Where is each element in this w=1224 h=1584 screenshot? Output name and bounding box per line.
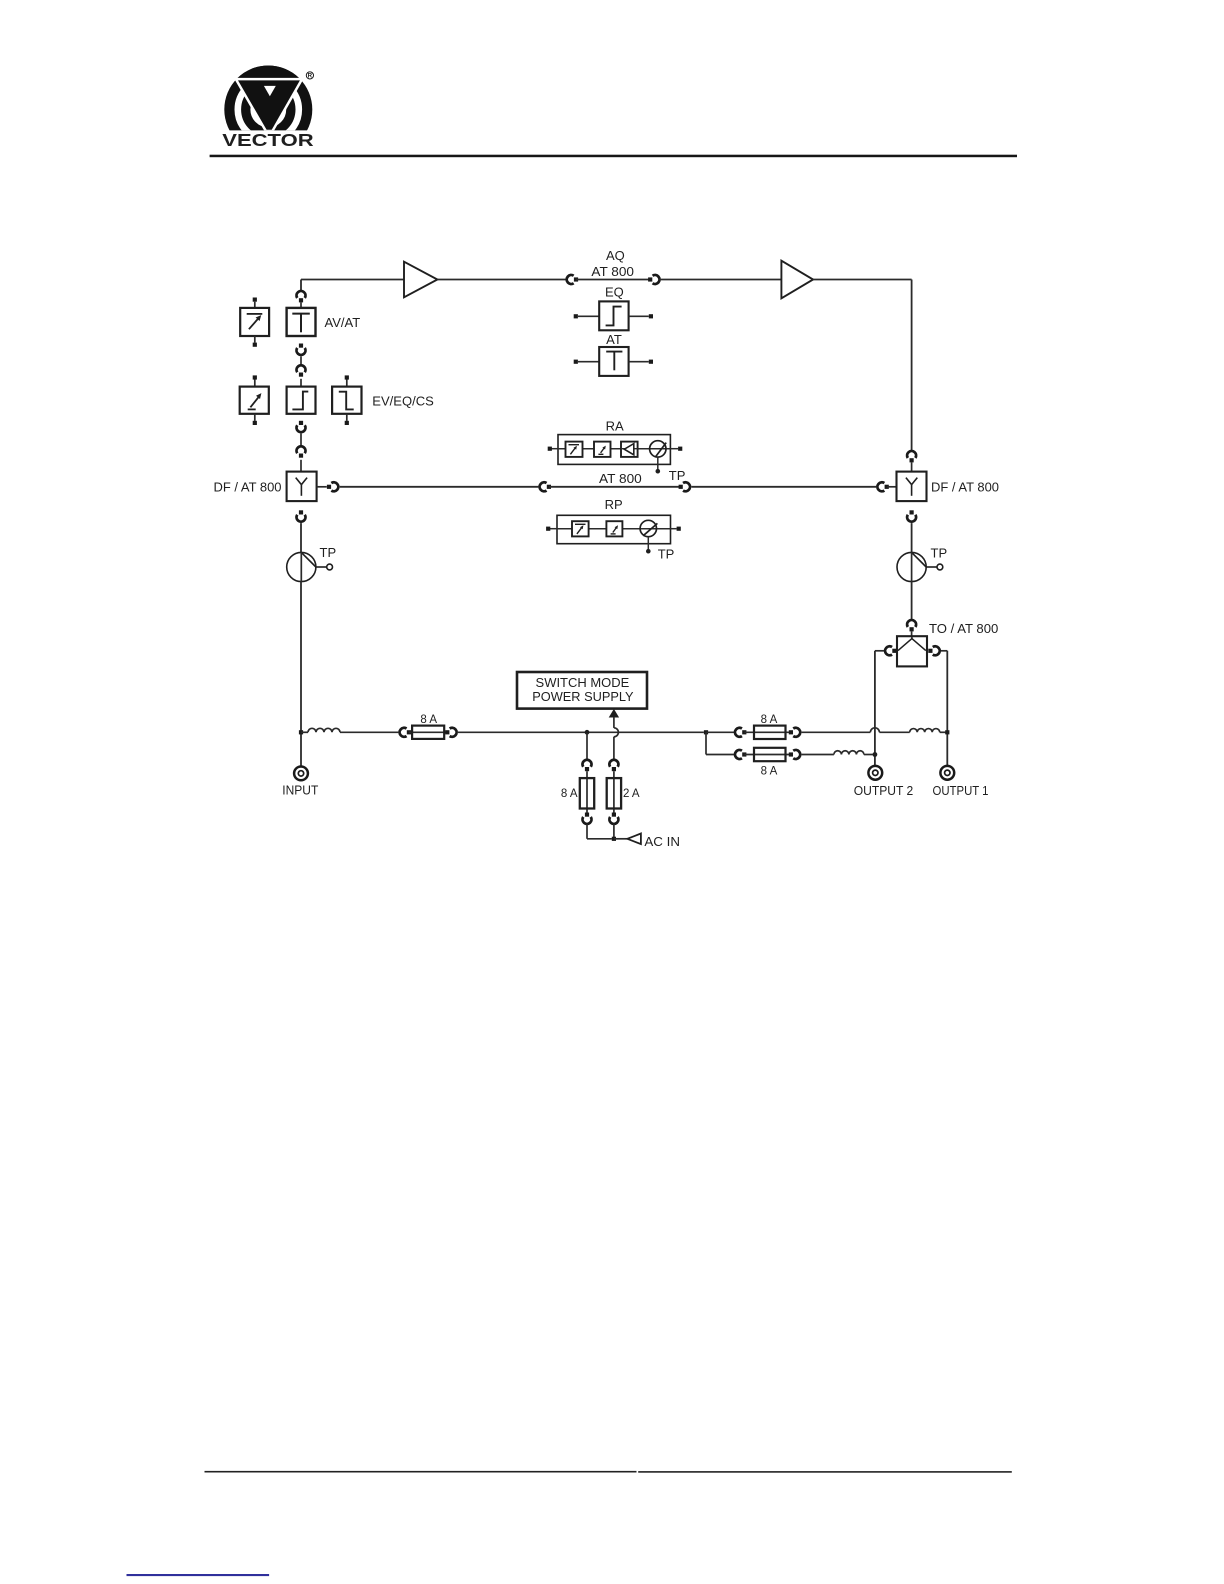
- wire J6 to J7: [300, 434, 302, 447]
- connector J8 plug: [327, 485, 331, 489]
- connector J15 plug: [910, 627, 914, 631]
- wire RP TP stub: [647, 537, 649, 549]
- wire through fuse F2: [744, 731, 791, 733]
- svg-text:DF / AT 800: DF / AT 800: [214, 479, 282, 494]
- svg-text:TP: TP: [931, 546, 948, 561]
- fuse F4 8A vertical: [580, 778, 594, 808]
- connector J4 plug: [299, 344, 303, 348]
- connector J3 socket: [297, 291, 306, 298]
- wire F3 to inductor L3: [802, 754, 834, 756]
- wire J13 to DF right: [911, 462, 913, 471]
- connector J3 plug: [299, 298, 303, 302]
- svg-text:DF / AT 800: DF / AT 800: [931, 480, 999, 495]
- connector J17 socket: [933, 646, 940, 655]
- junction input power tap: [299, 730, 303, 734]
- wire spare AV top stub: [254, 302, 256, 308]
- wire J11 to DF right: [887, 486, 897, 488]
- connector J25 socket: [793, 728, 800, 737]
- registered trademark symbol: [306, 72, 313, 80]
- wire to fuse F4: [586, 733, 588, 760]
- connector J12 socket: [297, 515, 306, 522]
- junction OUTPUT 1 feed: [945, 730, 949, 734]
- connector J6 plug: [299, 421, 303, 425]
- wire J14 to test point TP2: [911, 523, 913, 552]
- connector J15 socket: [907, 620, 916, 627]
- wire J2 to amplifier A2: [659, 279, 781, 281]
- wire AT left stub: [578, 361, 599, 363]
- AT module right plug: [649, 360, 653, 364]
- module EQ equalizer slot: [287, 387, 316, 414]
- connector J7 socket: [297, 446, 306, 453]
- connector J11 plug: [885, 485, 889, 489]
- connector J11 socket: [877, 482, 884, 491]
- connector J20 socket: [583, 760, 592, 767]
- wire power from input column: [301, 731, 308, 733]
- RA amp internal wire: [621, 448, 638, 450]
- svg-text:POWER SUPPLY: POWER SUPPLY: [532, 689, 634, 704]
- wire F2 to hop: [802, 731, 871, 733]
- svg-text:TP: TP: [669, 468, 686, 483]
- return amplifier module RA: [558, 435, 670, 465]
- VECTOR logo emblem: [222, 66, 315, 154]
- svg-text:AT 800: AT 800: [591, 264, 634, 279]
- wire EQ left stub: [578, 315, 599, 317]
- connector J6 socket: [297, 425, 306, 432]
- wire J15 to TO module: [911, 631, 913, 636]
- connector J18 plug: [407, 730, 411, 734]
- module AV/AT: [287, 308, 316, 336]
- wire spare CS bottom stub: [346, 414, 348, 421]
- wire J10 to J11: [691, 486, 876, 488]
- DF right Y symbol: [906, 478, 917, 496]
- wire F4 down: [586, 824, 588, 839]
- svg-text:AT: AT: [606, 332, 622, 347]
- AT attenuator symbol: [606, 352, 622, 371]
- RP left plug: [546, 527, 550, 531]
- svg-text:OUTPUT 1: OUTPUT 1: [933, 783, 989, 798]
- svg-text:8 A: 8 A: [561, 788, 578, 800]
- wire through fuse F5: [613, 771, 615, 813]
- module AT attenuator: [599, 347, 628, 376]
- connector J26 plug: [742, 752, 746, 756]
- wire AQ module section: [576, 279, 650, 281]
- svg-text:VECTOR: VECTOR: [222, 130, 314, 150]
- wire J3 to AV/AT: [300, 303, 302, 308]
- module CS cable simulator spare: [332, 387, 361, 414]
- test point TP1 coupler: [287, 552, 333, 581]
- AV/AT T symbol: [292, 314, 310, 333]
- RP attenuator arrow: [575, 524, 586, 534]
- RA TP terminal dot: [656, 469, 661, 474]
- test point TP2 coupler: [897, 552, 943, 581]
- module EQ equalizer: [599, 301, 628, 330]
- inductor L2 RF choke: [910, 729, 940, 733]
- svg-text:AT 800: AT 800: [599, 471, 642, 486]
- wire TP2 to connector J15: [911, 582, 913, 621]
- wire through fuse F4: [586, 771, 588, 813]
- wire input to amplifier A1: [301, 279, 404, 281]
- wire SMPS feed upper: [613, 717, 615, 728]
- svg-text:OUTPUT 2: OUTPUT 2: [854, 783, 914, 798]
- EQ response symbol: [606, 307, 622, 326]
- wire RA left stub: [550, 448, 558, 450]
- wire L3 to OUTPUT 2 line: [864, 754, 873, 756]
- switch mode power supply: [517, 672, 647, 709]
- INPUT jack: [294, 767, 308, 781]
- connector J1 socket: [567, 275, 574, 284]
- junction dot OUTPUT 2 feed: [873, 752, 878, 757]
- connector J1 plug: [574, 277, 578, 281]
- wire F1 to junction: [458, 731, 704, 733]
- CS slope symbol: [339, 392, 354, 410]
- connector J23 socket: [609, 817, 618, 824]
- RP internal wire: [557, 528, 671, 530]
- wire TO left to corner: [875, 650, 884, 652]
- connector J10 socket: [683, 482, 690, 491]
- wire F5 down: [613, 824, 615, 839]
- inductor L3 RF choke: [834, 751, 864, 755]
- wire hop over OUTPUT 2 line: [870, 728, 879, 733]
- EQ step symbol: [292, 392, 308, 410]
- wire J7 to DF left: [300, 460, 302, 472]
- junction AC node: [612, 837, 616, 841]
- wire AT 800 module section: [549, 486, 681, 488]
- wire through TP1: [300, 552, 302, 581]
- footer rule right: [638, 1471, 1012, 1473]
- spare CS module top plug: [345, 375, 349, 379]
- connector J14 socket: [907, 515, 916, 522]
- EV slope arrow symbol: [248, 397, 259, 410]
- connector J24 socket: [735, 728, 742, 737]
- spare AV module bottom plug: [253, 343, 257, 347]
- RA equalizer arrow: [598, 448, 604, 455]
- wire spare AV bottom stub: [254, 336, 256, 343]
- wire RP left stub: [548, 528, 557, 530]
- connector J16 plug: [892, 649, 896, 653]
- spare AV module top plug: [253, 298, 257, 302]
- connector J17 plug: [928, 649, 932, 653]
- svg-text:RA: RA: [606, 418, 624, 433]
- connector J9 plug: [547, 485, 551, 489]
- amplifier A2: [781, 261, 813, 299]
- junction power split: [704, 730, 708, 734]
- connector J13 socket: [907, 451, 916, 458]
- connector J18 socket: [400, 728, 407, 737]
- RP right plug: [677, 527, 681, 531]
- wire TO right to corner: [941, 650, 947, 652]
- wire junction to fuse F2: [706, 731, 735, 733]
- connector J13 plug: [910, 458, 914, 462]
- module EV variable equalizer spare: [240, 387, 269, 414]
- RA test coupler: [650, 441, 667, 458]
- OUTPUT 2 jack: [868, 766, 882, 780]
- connector J22 plug: [612, 767, 616, 771]
- svg-text:8 A: 8 A: [761, 714, 778, 726]
- wire spare EV bottom stub: [254, 414, 256, 421]
- RP equalizer arrow: [611, 527, 617, 534]
- inductor L1 RF choke: [308, 728, 340, 732]
- connector J2 plug: [648, 277, 652, 281]
- TO splitter symbol: [898, 636, 926, 650]
- wire RP right stub: [671, 528, 677, 530]
- wire L1 to fuse F1: [340, 731, 398, 733]
- connector J19 plug: [445, 730, 449, 734]
- wire J4 to J5: [300, 356, 302, 365]
- spare EV module top plug: [253, 375, 257, 379]
- RA variable attenuator: [566, 442, 583, 457]
- connector J25 plug: [789, 730, 793, 734]
- wire EQ right stub: [629, 315, 649, 317]
- wire down to OUTPUT 2 jack: [874, 651, 876, 766]
- return passive module RP: [557, 515, 671, 543]
- wire spare EV top stub: [254, 380, 256, 387]
- svg-text:R: R: [308, 73, 313, 80]
- RA return amplifier: [621, 442, 638, 457]
- connector J14 plug: [910, 510, 914, 514]
- svg-text:TP: TP: [320, 545, 337, 560]
- svg-text:2 A: 2 A: [623, 788, 640, 800]
- svg-text:EQ: EQ: [605, 285, 624, 300]
- wire L2 to OUTPUT 1 line: [940, 731, 948, 733]
- wire AT right stub: [629, 361, 649, 363]
- svg-text:SWITCH MODE: SWITCH MODE: [536, 675, 630, 690]
- diplex filter DF right: [897, 472, 927, 502]
- connector J2 socket: [653, 275, 660, 284]
- amplifier A1: [404, 262, 437, 298]
- EQ module right plug: [649, 314, 653, 318]
- DF Y symbol: [296, 478, 307, 496]
- connector J26 socket: [735, 750, 742, 759]
- wire right vertical from top: [911, 280, 913, 452]
- wire SMPS feed lower: [613, 737, 615, 761]
- AC IN arrow: [627, 834, 641, 845]
- wire spare CS top stub: [346, 380, 348, 387]
- connector J10 plug: [679, 485, 683, 489]
- connector J22 socket: [609, 760, 618, 767]
- RA amplifier triangle left: [624, 444, 634, 455]
- module AV variable attenuator spare: [240, 308, 269, 336]
- RA right plug: [678, 447, 682, 451]
- footer rule left: [205, 1471, 637, 1473]
- svg-text:TP: TP: [658, 546, 675, 561]
- svg-text:8 A: 8 A: [761, 766, 778, 778]
- wire RA TP stub: [657, 457, 659, 469]
- connector J27 socket: [793, 750, 800, 759]
- connector J27 plug: [789, 752, 793, 756]
- footer blue link underline: [127, 1574, 270, 1576]
- svg-text:AV/AT: AV/AT: [325, 315, 361, 330]
- connector J21 plug: [585, 813, 589, 817]
- wire branch to lower fuse F3: [706, 754, 735, 756]
- wire hop SMPS over power line: [614, 728, 619, 737]
- fuse F1 8A: [412, 726, 444, 739]
- wire down to OUTPUT 1 jack: [946, 651, 948, 766]
- wire hop to inductor L2: [879, 731, 909, 733]
- RP variable equalizer: [606, 521, 622, 536]
- connector J23 plug: [612, 813, 616, 817]
- svg-text:TO / AT 800: TO / AT 800: [929, 621, 998, 636]
- wire A2 to right corner: [813, 279, 912, 281]
- arrow into SMPS: [609, 709, 619, 718]
- connector J5 plug: [299, 373, 303, 377]
- RP variable attenuator: [572, 521, 589, 536]
- OUTPUT 1 jack: [940, 766, 954, 780]
- AV variable attenuator symbol: [247, 314, 263, 329]
- connector J8 socket: [331, 482, 338, 491]
- wire J5 to EQ module: [300, 379, 302, 387]
- wire DF left to J8: [317, 486, 327, 488]
- wire through TP2: [911, 552, 913, 581]
- connector J16 socket: [885, 646, 892, 655]
- wire RA right stub: [670, 448, 678, 450]
- connector J20 plug: [585, 767, 589, 771]
- wire branch down to lower row: [705, 732, 707, 754]
- RA internal wire: [558, 448, 670, 450]
- connector J5 socket: [297, 365, 306, 372]
- AT module left plug: [574, 360, 578, 364]
- connector J9 socket: [540, 482, 547, 491]
- RA left plug: [548, 447, 552, 451]
- RP test coupler: [640, 520, 657, 536]
- wire AC node to arrow: [614, 838, 628, 840]
- wire J8 to J9 return path: [340, 486, 539, 488]
- wire through fuse F1: [409, 731, 447, 733]
- fuse F5 2A: [607, 778, 621, 808]
- svg-text:AC IN: AC IN: [644, 834, 680, 849]
- connector J21 socket: [583, 817, 592, 824]
- connector J4 socket: [297, 348, 306, 355]
- fuse F2 8A: [754, 726, 786, 739]
- svg-text:AQ: AQ: [606, 248, 625, 263]
- RP TP terminal dot: [646, 549, 651, 554]
- connector J12 plug: [299, 510, 303, 514]
- wire through fuse F3: [744, 754, 791, 756]
- header rule: [210, 155, 1017, 158]
- wire A1 to connector J1: [437, 279, 566, 281]
- svg-text:8 A: 8 A: [420, 714, 437, 726]
- spare CS module bottom plug: [345, 421, 349, 425]
- svg-text:INPUT: INPUT: [282, 783, 318, 798]
- connector J7 plug: [299, 454, 303, 458]
- svg-text:EV/EQ/CS: EV/EQ/CS: [372, 394, 434, 409]
- svg-text:RP: RP: [605, 497, 623, 512]
- diplex filter DF left: [287, 472, 317, 502]
- wire F4 to AC node: [587, 838, 612, 840]
- wire TP1 to INPUT jack: [300, 582, 302, 767]
- connector J19 socket: [450, 728, 457, 737]
- spare EV module bottom plug: [253, 421, 257, 425]
- fuse F3 8A: [754, 748, 786, 761]
- tap-off module TO: [897, 636, 927, 666]
- EQ module left plug: [574, 314, 578, 318]
- junction dot 8A branch: [585, 730, 590, 735]
- wire J12 to test point TP1: [300, 523, 302, 552]
- RA attenuator arrow: [569, 445, 580, 455]
- RA variable equalizer: [594, 442, 611, 457]
- wire down from top corner: [300, 280, 302, 292]
- connector J24 plug: [742, 730, 746, 734]
